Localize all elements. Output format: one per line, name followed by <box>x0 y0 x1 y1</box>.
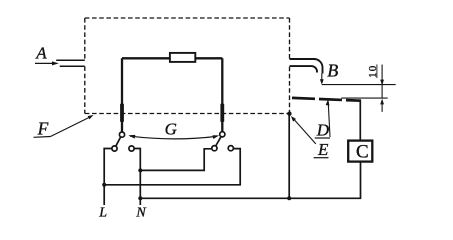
svg-text:B: B <box>327 61 338 81</box>
dimension text 10 underline <box>376 64 378 78</box>
wire from enclosure corner node down to h3 <box>288 114 290 199</box>
wire N from S1 contact b down <box>134 149 140 206</box>
svg-text:G: G <box>165 120 177 139</box>
dimension lower arrowhead <box>380 99 384 105</box>
leader E <box>293 118 316 144</box>
svg-text:L: L <box>98 205 107 220</box>
label D underline <box>315 137 330 139</box>
dimension lower extension line <box>341 97 387 99</box>
outlet spout inner line <box>290 66 318 72</box>
svg-text:N: N <box>135 206 146 221</box>
wire h1 N-branch to S2 contact a <box>140 149 212 171</box>
dimension upper arrowhead <box>380 80 384 86</box>
inlet pipe upper line <box>56 59 85 61</box>
switch S2 contact a <box>212 146 217 151</box>
wire from control box C top up to level line <box>359 100 361 141</box>
label E underline <box>314 157 329 159</box>
label F underline <box>34 136 51 139</box>
wire h3 N-branch to control box C <box>140 162 360 199</box>
outlet spout outer line <box>290 59 323 74</box>
switch S1 pivot <box>119 132 124 137</box>
switch S1 contact a <box>112 146 117 151</box>
enclosure F dashed box left edge <box>84 18 86 114</box>
junction node on N wire at h1 <box>138 168 142 172</box>
resistor R heating element <box>170 53 195 62</box>
inlet pipe lower line <box>60 65 85 67</box>
leader F <box>51 117 91 137</box>
heating element loop left vertical wire <box>121 58 123 132</box>
terminal bushing left (thick crossing) <box>120 104 124 122</box>
svg-text:A: A <box>35 43 47 62</box>
wire h2 L-branch to S2 contact b <box>104 149 240 185</box>
svg-text:F: F <box>37 118 49 138</box>
svg-text:E: E <box>317 140 329 159</box>
linkage G right arrowhead <box>213 135 220 139</box>
heating element loop top-left wire <box>122 57 170 59</box>
junction node on L wire <box>102 183 106 187</box>
switch S1 lever <box>116 137 121 146</box>
wire L from S1 contact a down <box>104 149 112 206</box>
switch S2 lever <box>216 137 221 146</box>
heating element loop right vertical wire <box>221 58 223 131</box>
switch S2 contact b <box>228 146 233 151</box>
dimension line vertical <box>381 65 383 98</box>
enclosure F dashed box right edge <box>289 18 291 114</box>
svg-text:D: D <box>316 121 330 140</box>
outlet drip arrow <box>321 74 323 81</box>
enclosure F dashed box bottom edge <box>85 113 290 115</box>
switch S1 contact b <box>129 146 134 151</box>
leader D <box>328 102 330 138</box>
switch S2 pivot <box>220 132 225 137</box>
dimension upper extension line <box>322 84 396 86</box>
terminal bushing right (thick crossing) <box>220 104 224 122</box>
enclosure F dashed box top edge <box>85 17 290 19</box>
svg-text:C: C <box>356 141 369 162</box>
heating element loop top-right wire <box>195 57 222 59</box>
linkage G left arrowhead <box>128 135 135 139</box>
dimension lower arrow tail <box>381 104 383 112</box>
water level line D (thick dashed) <box>292 98 361 101</box>
dimension text 10 <box>367 64 379 77</box>
control box C <box>348 141 372 162</box>
linkage G curve <box>130 136 216 139</box>
junction node E at enclosure corner <box>287 112 291 116</box>
junction node on N wire at h3 <box>138 196 142 200</box>
junction node h3 / corner wire <box>287 196 291 200</box>
inlet arrow A <box>35 62 54 64</box>
